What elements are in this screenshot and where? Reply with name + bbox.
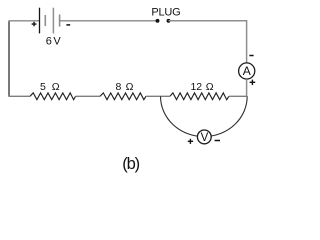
wire top middle (battery to plug) bbox=[60, 20, 158, 22]
svg-text:A: A bbox=[243, 64, 251, 78]
svg-text:Ω: Ω bbox=[52, 81, 60, 93]
label 5 ohm bbox=[40, 81, 60, 93]
svg-text:5: 5 bbox=[40, 81, 46, 93]
label 8 ohm bbox=[115, 81, 133, 93]
voltmeter minus mark bbox=[215, 140, 220, 142]
label 6 V bbox=[46, 36, 62, 48]
plug key S1 (two terminals, open gap) bbox=[156, 19, 171, 23]
wire bottom segment 1 bbox=[8, 95, 30, 97]
wire top left (corner to battery +) bbox=[8, 20, 39, 22]
resistor R2 8 ohm bbox=[100, 93, 146, 100]
svg-text:8: 8 bbox=[115, 81, 121, 93]
wire voltmeter arc (across 12 ohm) bbox=[161, 96, 248, 136]
wire left vertical bbox=[8, 21, 10, 97]
battery B1 6V bbox=[40, 8, 60, 34]
svg-text:Ω: Ω bbox=[126, 81, 134, 93]
svg-text:V: V bbox=[53, 36, 61, 48]
svg-text:12: 12 bbox=[190, 81, 202, 93]
ammeter A1 bbox=[239, 63, 255, 79]
wire bottom segment 4 bbox=[229, 95, 247, 97]
resistor R1 5 ohm bbox=[30, 93, 76, 100]
svg-text:6: 6 bbox=[46, 36, 52, 48]
wire right vertical (ammeter to bottom corner) bbox=[246, 79, 248, 96]
wire bottom segment 2 bbox=[76, 95, 100, 97]
wire bottom segment 3 bbox=[146, 95, 170, 97]
svg-text:PLUG: PLUG bbox=[151, 7, 180, 19]
battery minus mark bbox=[66, 24, 70, 26]
voltmeter V1 bbox=[197, 130, 211, 144]
battery plus mark bbox=[32, 22, 37, 27]
svg-text:Ω: Ω bbox=[206, 81, 214, 93]
resistor R3 12 ohm bbox=[170, 93, 229, 100]
svg-text:(b): (b) bbox=[122, 155, 139, 173]
ammeter plus mark bbox=[250, 80, 256, 86]
svg-text:V: V bbox=[201, 132, 209, 144]
ammeter minus mark bbox=[249, 55, 253, 57]
voltmeter plus mark bbox=[188, 139, 193, 144]
wire top right (plug to corner, down to ammeter) bbox=[169, 21, 247, 63]
label 12 ohm bbox=[190, 81, 213, 93]
